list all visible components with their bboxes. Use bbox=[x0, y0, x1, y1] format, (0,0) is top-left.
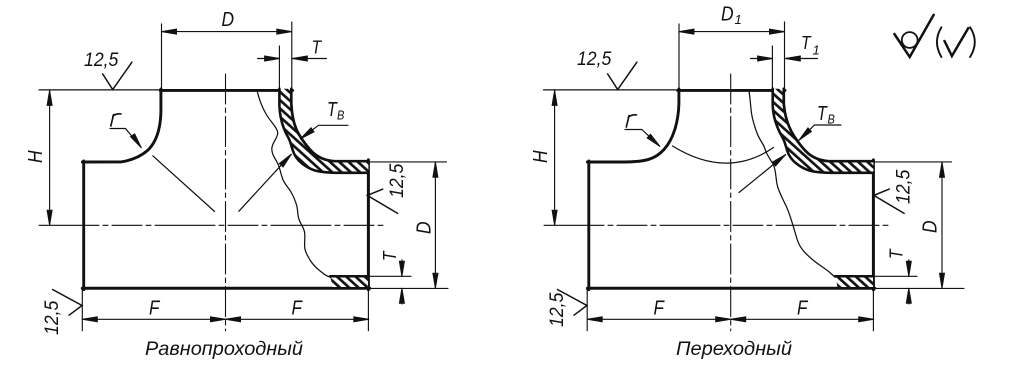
branch top edge bbox=[678, 89, 785, 92]
parenthesis left bbox=[937, 27, 941, 57]
svg-text:F: F bbox=[292, 296, 304, 319]
dimension F line bbox=[587, 318, 874, 320]
svg-text:1: 1 bbox=[813, 43, 820, 58]
dimension H line and arrows bbox=[554, 90, 556, 225]
svg-text:F: F bbox=[797, 296, 809, 319]
right end face edge bbox=[367, 160, 370, 290]
top surface extension line left bbox=[544, 89, 681, 91]
right side top extension line bbox=[370, 161, 447, 163]
roughness tick bottom-left bbox=[53, 290, 82, 316]
F extension line left bbox=[81, 290, 83, 331]
dimension T vertical arrows right bbox=[401, 260, 403, 276]
F extension line right bbox=[872, 290, 874, 331]
label r fillet (right tee) bbox=[626, 115, 636, 127]
svg-text:Переходный: Переходный bbox=[676, 338, 792, 360]
svg-text:12,5: 12,5 bbox=[577, 47, 612, 69]
svg-text:1: 1 bbox=[735, 12, 742, 27]
roughness tick right edge bbox=[367, 189, 397, 213]
leader arrow for fillet r bbox=[625, 130, 660, 147]
run bottom inner surface edge bbox=[835, 275, 873, 278]
left end face edge bbox=[82, 161, 85, 290]
bore saddle intersection arc bbox=[673, 146, 774, 163]
dimension H line and arrows bbox=[49, 90, 51, 225]
branch left outline with flare and run top left bbox=[587, 89, 679, 162]
top surface extension line left bbox=[39, 89, 162, 91]
right side inner wall extension line bbox=[368, 275, 411, 277]
left end face edge bbox=[587, 161, 590, 290]
dimension D extension lines bbox=[161, 24, 163, 89]
svg-text:В: В bbox=[828, 112, 835, 127]
svg-text:T: T bbox=[379, 250, 401, 261]
svg-text:F: F bbox=[654, 296, 666, 319]
branch vertical centerline bbox=[730, 74, 732, 331]
F extension line right bbox=[367, 290, 369, 331]
svg-text:12,5: 12,5 bbox=[545, 292, 567, 327]
roughness tick bottom-left bbox=[558, 290, 587, 316]
dimension T1 inner extension line bbox=[771, 46, 773, 89]
branch vertical centerline bbox=[225, 74, 227, 331]
right side bottom extension line bbox=[875, 287, 964, 289]
svg-text:H: H bbox=[24, 150, 46, 163]
branch wall outer profile bbox=[291, 89, 368, 162]
bottom outline bbox=[587, 287, 874, 290]
branch wall section hatch band bbox=[279, 89, 368, 173]
dimension T inner extension line bbox=[278, 46, 280, 89]
svg-text:В: В bbox=[337, 108, 344, 123]
roughness tick right edge bbox=[874, 189, 904, 213]
broken-out section wavy line bbox=[749, 91, 836, 278]
dimension T1 line and arrows bbox=[751, 58, 773, 60]
right side top extension line bbox=[875, 161, 952, 163]
svg-text:D: D bbox=[222, 8, 235, 30]
svg-text:D: D bbox=[918, 220, 940, 233]
roughness symbol check with circle bbox=[894, 15, 933, 57]
run horizontal centerline bbox=[39, 224, 384, 226]
svg-text:12,5: 12,5 bbox=[84, 48, 119, 70]
branch wall inner profile bbox=[279, 89, 368, 173]
dimension D vertical line right bbox=[941, 162, 943, 288]
dimension T vertical arrows right bbox=[908, 260, 910, 276]
leader arrow Tv to inner wall / bore intersection right bbox=[239, 154, 291, 211]
label r fillet bbox=[111, 114, 121, 126]
svg-text:12,5: 12,5 bbox=[40, 300, 62, 335]
roughness tick top-left bbox=[103, 62, 132, 89]
dimension D1 extension lines bbox=[678, 24, 680, 89]
leader arrow Tv to outer wall bbox=[799, 125, 841, 140]
right side inner wall extension line bbox=[873, 275, 917, 277]
svg-text:12,5: 12,5 bbox=[385, 163, 407, 198]
leader arrow for fillet r bbox=[110, 129, 141, 148]
svg-text:T: T bbox=[312, 36, 323, 58]
bore intersection line left bbox=[153, 156, 215, 212]
svg-text:D: D bbox=[721, 2, 734, 24]
bottom outline bbox=[82, 287, 369, 290]
branch top edge bbox=[160, 89, 292, 92]
branch left outline with fillet and run top left bbox=[82, 89, 160, 162]
dimension T line and arrows bbox=[258, 58, 280, 60]
check mark in parentheses bbox=[945, 28, 969, 56]
parenthesis right bbox=[970, 27, 975, 57]
leader arrow Tv to inner wall bbox=[739, 155, 786, 193]
branch wall inner profile bbox=[773, 89, 874, 173]
right end face edge bbox=[872, 160, 875, 290]
svg-text:Равнопроходный: Равнопроходный bbox=[145, 338, 303, 360]
F extension line left bbox=[586, 290, 588, 331]
branch wall section hatch band bbox=[773, 89, 874, 173]
svg-text:T: T bbox=[885, 248, 907, 259]
svg-text:D: D bbox=[412, 221, 434, 234]
broken-out section wavy line bbox=[257, 91, 331, 278]
svg-text:F: F bbox=[149, 296, 161, 319]
run bottom inner surface edge bbox=[330, 275, 368, 278]
dimension D vertical line right bbox=[434, 162, 436, 288]
svg-text:12,5: 12,5 bbox=[892, 169, 914, 204]
dimension D1 line bbox=[679, 31, 785, 33]
right side bottom extension line bbox=[370, 287, 448, 289]
run bottom wall hatch band bbox=[836, 278, 874, 288]
dimension D line bbox=[162, 31, 292, 33]
svg-text:H: H bbox=[529, 150, 551, 163]
branch wall outer profile bbox=[784, 89, 874, 162]
run horizontal centerline bbox=[544, 224, 889, 226]
svg-text:T: T bbox=[801, 32, 812, 54]
run bottom wall hatch band bbox=[331, 278, 369, 288]
leader arrow Tv to outer wall bbox=[301, 125, 349, 139]
dimension F line bbox=[82, 318, 369, 320]
roughness tick top-left bbox=[608, 62, 637, 89]
